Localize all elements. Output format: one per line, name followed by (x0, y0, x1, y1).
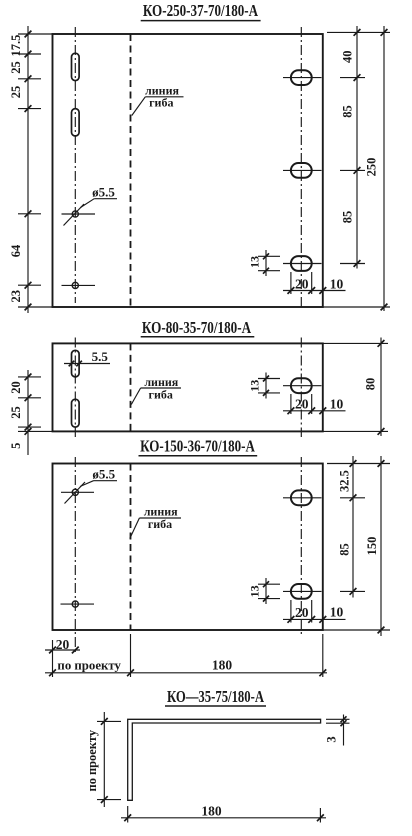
svg-text:3: 3 (325, 736, 339, 742)
hole circle d5.5 drawing3 (61, 482, 94, 504)
fold line drawing3 (130, 464, 132, 631)
svg-text:23: 23 (9, 290, 23, 303)
svg-text:85: 85 (341, 211, 355, 224)
right centerline drawing2 (300, 338, 302, 438)
oval hole drawing2 (291, 378, 312, 393)
dim 180 drawing4 (121, 803, 326, 822)
svg-text:17.5: 17.5 (9, 35, 23, 57)
dim 20 oval drawing2 (283, 394, 346, 414)
dim 20 oval drawing1 (283, 272, 346, 294)
right inner dimension line drawing3 (327, 456, 390, 598)
left centerline drawing3 (74, 457, 76, 653)
fold line label drawing1 (132, 84, 184, 116)
svg-text:25: 25 (9, 406, 23, 419)
hole circle lower drawing1 (62, 282, 96, 288)
svg-text:40: 40 (341, 50, 355, 63)
svg-text:180: 180 (201, 803, 222, 818)
svg-text:13: 13 (248, 585, 262, 597)
fold line label drawing3 (130, 505, 181, 539)
fold line drawing1 (130, 34, 132, 307)
svg-text:по проекту: по проекту (57, 659, 121, 673)
plate outline drawing2 (53, 343, 323, 431)
svg-text:гиба: гиба (149, 95, 173, 109)
dim 13 drawing2 (248, 373, 281, 399)
svg-text:5: 5 (9, 443, 23, 449)
ovals drawing3 (291, 490, 312, 505)
right outer dimension line drawing1 (323, 26, 390, 311)
svg-text:20: 20 (295, 605, 309, 620)
bottom dim po proektu and 180 (45, 634, 327, 677)
svg-text:13: 13 (248, 380, 262, 392)
svg-text:20: 20 (9, 381, 23, 394)
svg-text:10: 10 (330, 397, 344, 412)
svg-text:10: 10 (330, 276, 344, 291)
hole circle lower drawing3 (61, 601, 95, 607)
right ovals drawing1 (291, 70, 312, 85)
svg-text:80: 80 (364, 378, 378, 391)
fold line drawing2 (130, 343, 132, 431)
svg-text:250: 250 (365, 158, 379, 177)
right centerline drawing3 (300, 457, 302, 636)
leader label d5.5 drawing1 (81, 184, 118, 207)
title KO-250-37-70/180-A (141, 1, 261, 20)
svg-text:гиба: гиба (148, 517, 172, 531)
dim po proektu drawing4 (85, 712, 121, 807)
svg-text:85: 85 (341, 105, 355, 118)
title KO-80-35-70/180-A (141, 318, 255, 337)
svg-text:20: 20 (295, 276, 309, 291)
left dimension line drawing2 (18, 370, 53, 455)
right inner dimension line drawing1 (327, 26, 390, 269)
svg-text:20: 20 (295, 397, 309, 412)
svg-text:по проекту: по проекту (85, 729, 99, 791)
plate outline drawing3 (53, 464, 323, 631)
svg-text:32.5: 32.5 (338, 470, 352, 492)
right centerline drawing1 (300, 27, 302, 310)
L angle profile (128, 719, 321, 800)
right outer dimension line drawing3 (323, 456, 390, 636)
left dimension line drawing1 (18, 26, 53, 313)
dim 13 drawing3 (248, 578, 281, 604)
left slot hole 2 (72, 109, 80, 136)
title KO-150-36-70/180-A (139, 437, 258, 456)
left slot hole 1 (72, 53, 80, 80)
svg-text:КО-150-36-70/180-А: КО-150-36-70/180-А (140, 437, 255, 456)
svg-text:10: 10 (330, 605, 344, 620)
svg-text:КО-250-37-70/180-А: КО-250-37-70/180-А (143, 1, 258, 20)
svg-text:5.5: 5.5 (92, 349, 109, 364)
right dimension 80 drawing2 (323, 338, 388, 437)
svg-text:13: 13 (248, 256, 262, 268)
fold line label drawing2 (131, 375, 181, 405)
left centerline drawing2 (74, 338, 76, 438)
svg-text:180: 180 (212, 657, 233, 672)
svg-text:150: 150 (365, 537, 379, 556)
svg-text:25: 25 (9, 61, 23, 74)
title KO-35-75/180-A (165, 687, 266, 706)
svg-text:85: 85 (338, 543, 352, 556)
slot width dim 5.5 (64, 349, 110, 367)
svg-text:25: 25 (9, 86, 23, 99)
svg-text:ø5.5: ø5.5 (92, 467, 115, 482)
svg-text:64: 64 (9, 244, 23, 257)
plate outline drawing1 (53, 34, 323, 307)
svg-text:КО—35-75/180-А: КО—35-75/180-А (167, 687, 264, 706)
left centerline drawing1 (74, 27, 76, 303)
dim 13 oval drawing1 (248, 250, 281, 276)
dim 20 oval drawing3 (283, 600, 346, 623)
svg-text:КО-80-35-70/180-А: КО-80-35-70/180-А (142, 318, 251, 337)
slot hole 1 drawing2 (72, 350, 80, 377)
dim 3 thickness drawing4 (325, 715, 350, 746)
slot hole 2 drawing2 (72, 399, 80, 427)
svg-text:20: 20 (56, 637, 70, 652)
svg-text:ø5.5: ø5.5 (92, 184, 115, 199)
bottom dim 20 (45, 637, 80, 677)
leader label d5.5 drawing3 (80, 467, 117, 487)
svg-text:гиба: гиба (149, 387, 173, 401)
hole circle d5.5 upper (62, 204, 96, 226)
